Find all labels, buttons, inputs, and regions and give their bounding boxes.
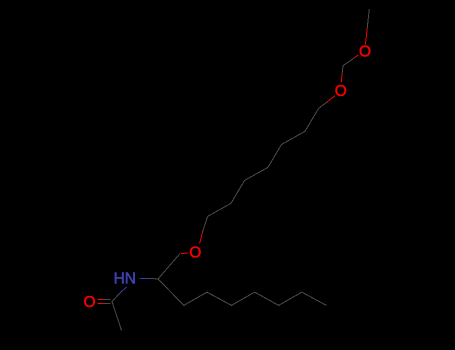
- svg-text:O: O: [189, 244, 201, 261]
- svg-text:O: O: [359, 43, 371, 60]
- svg-text:HN: HN: [114, 270, 136, 287]
- svg-text:O: O: [83, 294, 95, 311]
- svg-text:O: O: [335, 83, 347, 100]
